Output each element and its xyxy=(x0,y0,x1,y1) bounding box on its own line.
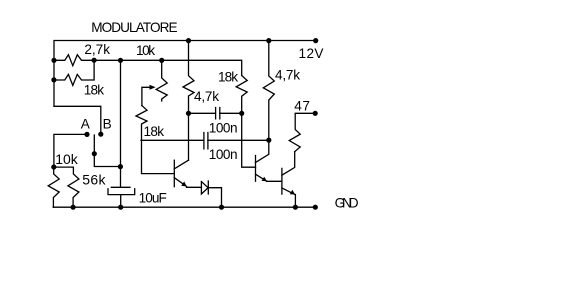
capacitor C1 100n xyxy=(216,108,220,119)
svg-text:100n: 100n xyxy=(209,147,238,162)
trimmer P1 wiper arrowhead xyxy=(150,85,156,90)
node 12V rail / R4 junction xyxy=(186,38,191,43)
node 12V rail / R6 junction xyxy=(266,38,271,43)
transistor Q3 emitter xyxy=(282,188,295,195)
svg-text:10uF: 10uF xyxy=(139,190,167,205)
capacitor C2 100n xyxy=(204,133,208,149)
wire GND rail xyxy=(53,206,315,208)
wire bias row xyxy=(94,60,242,75)
svg-text:100n: 100n xyxy=(209,120,238,135)
resistor R9 56k xyxy=(54,167,79,207)
wire bias column to C3 xyxy=(120,60,122,187)
svg-text:56k: 56k xyxy=(82,171,106,187)
node R2 left junction xyxy=(51,77,56,82)
node jumper common pin xyxy=(92,151,97,156)
wire Q2 emitter to Q3 base xyxy=(267,180,282,182)
resistor R3 18k xyxy=(136,106,147,141)
svg-text:4,7k: 4,7k xyxy=(275,68,300,83)
svg-text:GND: GND xyxy=(335,196,359,211)
node C1 right junction xyxy=(239,111,244,116)
transistor Q2 base bar xyxy=(255,156,257,182)
wire Q1 emitter to D1 xyxy=(187,186,202,188)
node R1 right junction xyxy=(92,58,97,63)
transistor Q1 emitter xyxy=(174,178,186,187)
transistor Q2 emitter xyxy=(256,174,267,181)
svg-text:2,7k: 2,7k xyxy=(84,42,110,57)
svg-text:B: B xyxy=(103,116,112,131)
wire jumper terminal A leg xyxy=(54,134,87,167)
wire node to C1 xyxy=(189,112,216,114)
svg-text:18k: 18k xyxy=(84,82,105,97)
wire jumper common pin xyxy=(94,135,120,167)
node R1 left junction xyxy=(51,58,56,63)
capacitor C3 10uF top plate xyxy=(111,186,130,188)
terminal 12V xyxy=(313,38,318,43)
trimmer P1 10k body xyxy=(156,60,167,101)
capacitor C3 10uF bottom plate xyxy=(108,189,135,195)
resistor R1 2,7k xyxy=(54,55,94,66)
node C1 left junction xyxy=(186,111,191,116)
terminal GND xyxy=(313,205,318,210)
trimmer P1 wiper wire xyxy=(142,87,153,105)
transistor Q1 collector xyxy=(174,160,188,169)
svg-text:A: A xyxy=(81,116,91,131)
node A terminal xyxy=(84,132,89,137)
wire D1 cathode to ground rail xyxy=(208,188,221,208)
resistor R5 18k xyxy=(236,76,247,114)
wire Q3 emitter to ground rail xyxy=(294,195,296,208)
node bias column top junction xyxy=(118,58,123,63)
wire Q1 base xyxy=(142,140,175,173)
node D1 ground junction xyxy=(219,205,224,210)
transistor Q3 base bar xyxy=(281,168,283,194)
svg-text:18k: 18k xyxy=(218,70,238,85)
svg-text:10k: 10k xyxy=(55,151,78,167)
diode D1 xyxy=(201,182,208,195)
terminal output (after R7) xyxy=(313,111,318,116)
node R9 ground junction xyxy=(71,205,76,210)
resistor R4 4,7k (in 12V-to-Q1-collector column) xyxy=(183,41,194,161)
svg-text:10k: 10k xyxy=(136,43,155,58)
wire C2 to collector node xyxy=(208,139,269,141)
svg-text:47: 47 xyxy=(294,98,310,113)
wire to jumper terminal B xyxy=(54,106,101,134)
node Q2 collector junction xyxy=(266,138,271,143)
svg-text:18k: 18k xyxy=(144,124,165,139)
resistor R8 10k xyxy=(48,167,59,207)
resistor R6 4,7k (12V column to Q2 collector) xyxy=(256,41,275,163)
svg-text:4,7k: 4,7k xyxy=(194,89,219,104)
wire C1 to Q2 base node xyxy=(220,112,242,114)
node P1 top junction xyxy=(159,58,164,63)
wire C3 to ground rail xyxy=(120,195,122,208)
node jumper/bias column junction xyxy=(118,164,123,169)
node B terminal xyxy=(98,132,103,137)
transistor Q1 base bar xyxy=(173,160,175,187)
wire 12V top rail (with left drop to node) xyxy=(54,41,316,107)
svg-text:12V: 12V xyxy=(299,46,324,61)
svg-text:MODULATORE: MODULATORE xyxy=(91,20,177,35)
resistor R7 47 (with output terminal stub) xyxy=(289,113,315,151)
node Q3 emitter ground junction xyxy=(293,205,298,210)
wire Q2 base xyxy=(242,113,256,167)
resistor R2 18k (parallel with R1) xyxy=(54,60,94,85)
node C3 ground junction xyxy=(118,205,123,210)
node R8/R9 top junction xyxy=(51,164,56,169)
wire node to C2 xyxy=(141,139,204,141)
transistor Q3 collector xyxy=(282,152,295,176)
